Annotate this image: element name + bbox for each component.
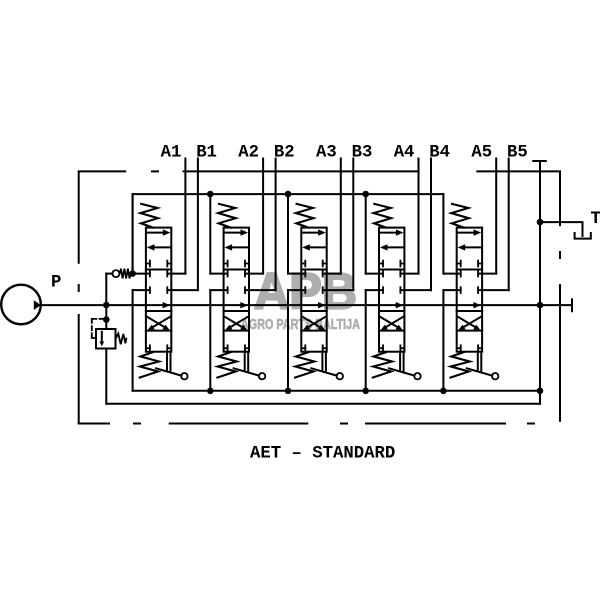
wire parallel pressure gallery <box>133 194 444 274</box>
valve section V1 <box>133 159 198 391</box>
svg-text:B1: B1 <box>196 143 217 162</box>
node pressure gallery junction <box>285 191 292 198</box>
node tank bus junction <box>362 388 369 395</box>
svg-text:A2: A2 <box>238 143 259 162</box>
watermark APB logo <box>241 263 360 334</box>
enclosure frame left <box>78 285 80 424</box>
wire T outlet branch <box>540 222 583 236</box>
svg-text:B3: B3 <box>352 143 373 162</box>
node tank bus junction <box>207 388 214 395</box>
node pressure gallery junction <box>362 191 369 198</box>
valve section V4 <box>366 159 431 391</box>
relief valve pilot line (dashed) <box>92 319 104 338</box>
node tank bus junction <box>440 388 447 395</box>
plugged top port <box>533 160 546 162</box>
node relief pilot tee <box>103 316 110 323</box>
svg-text:A3: A3 <box>316 143 337 162</box>
svg-text:AET – STANDARD: AET – STANDARD <box>250 445 395 464</box>
wire P supply line <box>41 304 572 306</box>
svg-text:A1: A1 <box>161 143 182 162</box>
check valve <box>106 269 130 279</box>
enclosure frame right <box>559 171 561 420</box>
P carry-over plugged outlet <box>571 299 573 311</box>
valve section V2 <box>210 159 275 391</box>
svg-text:B4: B4 <box>429 143 450 162</box>
node P junction to relief/check <box>103 302 110 309</box>
valve section V5 <box>443 159 508 391</box>
svg-text:P: P <box>51 273 61 292</box>
node tank branch junction <box>537 219 544 226</box>
wire tank return bus <box>133 390 540 392</box>
enclosure frame bottom <box>79 423 534 425</box>
svg-text:B2: B2 <box>274 143 295 162</box>
node check valve outlet junction <box>129 270 136 277</box>
tank symbol <box>575 233 591 239</box>
valve section V3 <box>288 159 353 391</box>
wire tank line T <box>539 161 541 404</box>
wire relief valve branch <box>105 305 107 329</box>
relief valve <box>96 329 126 349</box>
svg-text:T: T <box>591 210 600 229</box>
pump <box>1 285 41 325</box>
node tank bus junction <box>537 388 544 395</box>
node pressure gallery junction <box>207 191 214 198</box>
svg-text:B5: B5 <box>507 143 528 162</box>
enclosure frame top <box>79 171 560 262</box>
wire relief valve outlet <box>105 349 107 404</box>
svg-text:A4: A4 <box>394 143 415 162</box>
node P carry-over to tank junction <box>537 302 544 309</box>
svg-text:A5: A5 <box>471 143 492 162</box>
wire relief return line <box>106 403 540 405</box>
wire check valve branch riser <box>105 274 107 306</box>
node tank bus junction <box>285 388 292 395</box>
